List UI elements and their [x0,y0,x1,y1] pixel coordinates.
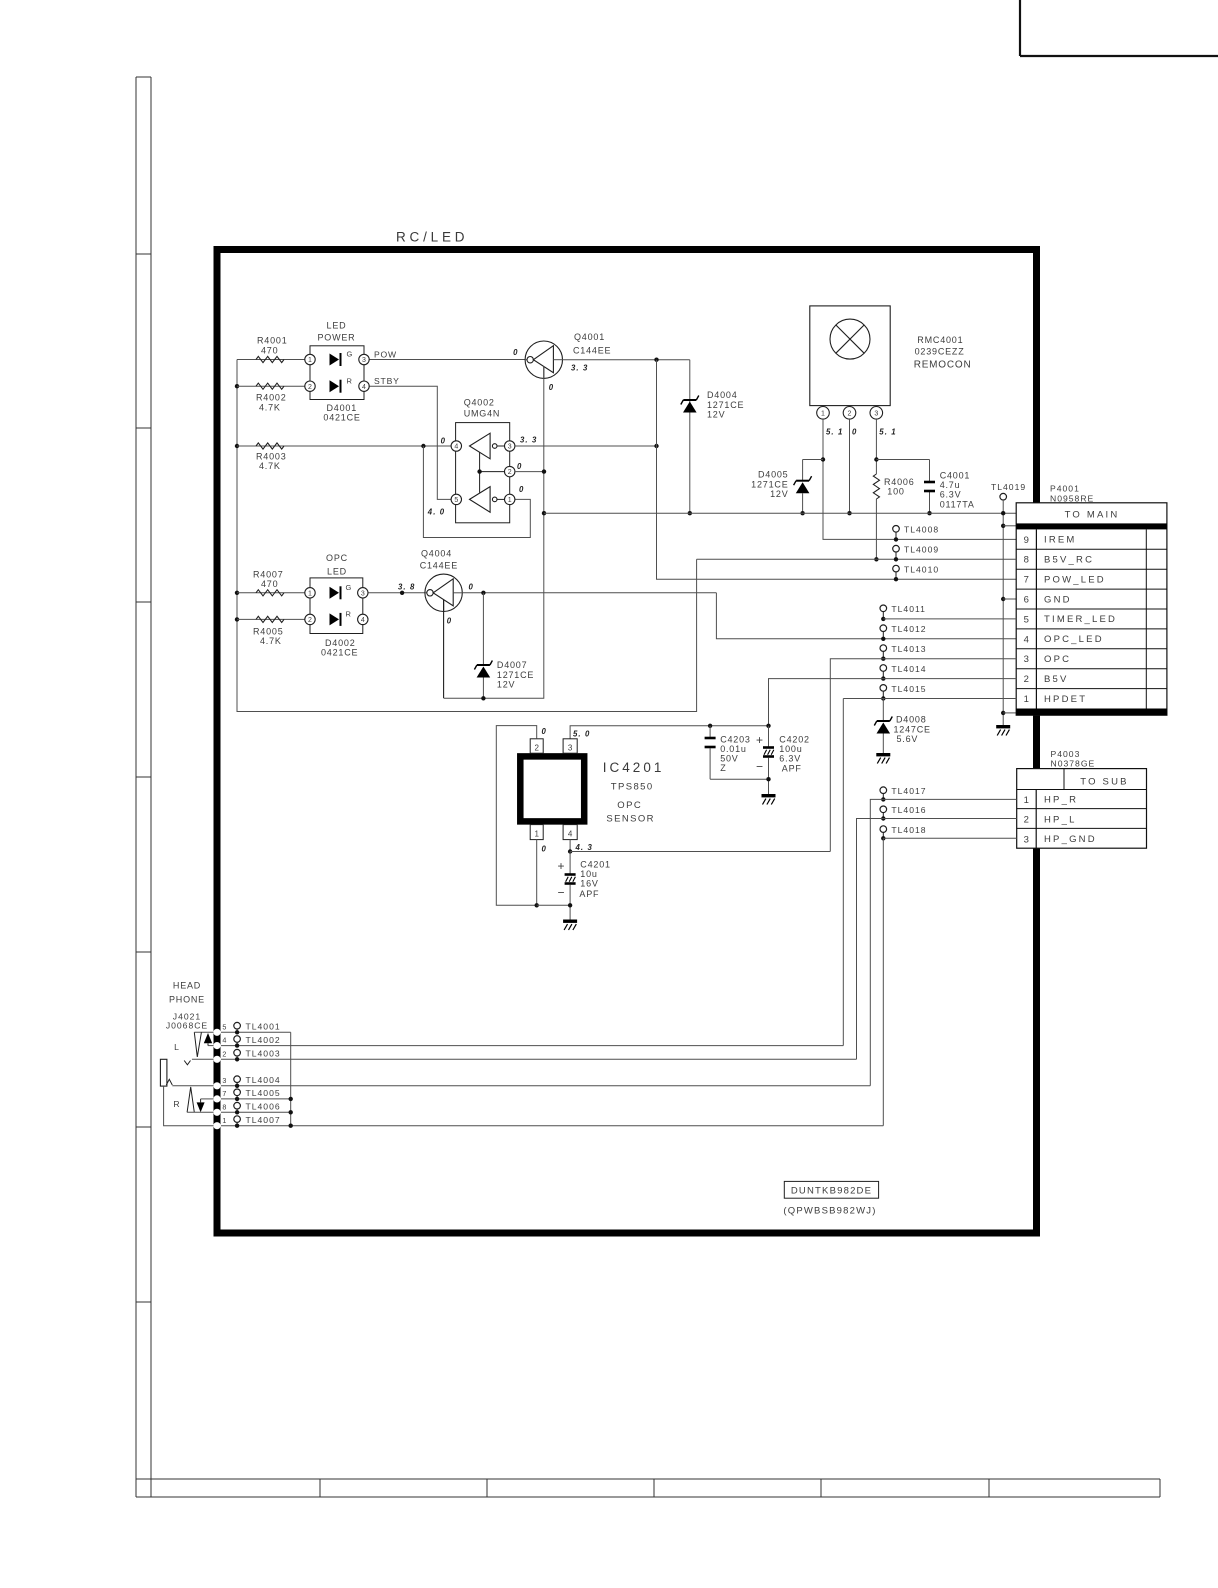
main board thick border [214,246,1041,253]
wire POWLED riser [657,360,1017,580]
svg-text:1271CE: 1271CE [707,400,744,410]
svg-text:R4002: R4002 [256,393,287,403]
wire Q4004 emitter [443,600,445,699]
svg-text:TO MAIN: TO MAIN [1065,510,1120,521]
svg-text:12V: 12V [770,489,788,499]
pin 2 of IC4201 [530,739,543,753]
node emitter-pin2 [542,469,546,473]
wire TIMER_LED row [883,618,1016,620]
ground at D4008 [876,753,890,756]
svg-text:TL4008: TL4008 [904,525,939,535]
svg-text:TL4005: TL4005 [246,1088,281,1098]
svg-text:STBY: STBY [374,376,400,386]
node tl4019-gnd wire [1001,511,1005,515]
svg-text:N0958RE: N0958RE [1050,494,1094,504]
svg-text:D4002: D4002 [325,638,356,648]
wire Q4002 pin3 output [515,445,657,447]
svg-text:5. 1: 5. 1 [826,428,843,437]
svg-text:5: 5 [222,1022,226,1031]
node Q4004-D4007 [481,591,485,595]
svg-text:J0068CE: J0068CE [166,1021,208,1031]
svg-text:N0378GE: N0378GE [1051,759,1096,769]
svg-text:0: 0 [542,845,547,854]
svg-text:TL4009: TL4009 [904,545,939,555]
wire pin3 riser [875,419,877,474]
transistor Q4004 C144EE [425,574,462,611]
wire stub bottom bar [1003,712,1016,714]
pin 4 of D4001 [359,381,369,391]
svg-text:R: R [347,377,353,386]
svg-text:7: 7 [1024,575,1029,586]
svg-text:TL4003: TL4003 [246,1049,281,1059]
svg-text:12V: 12V [707,409,725,419]
svg-text:3. 8: 3. 8 [398,583,415,592]
wire IC pin2 loop [496,726,536,906]
node bus-R4005 [235,617,239,621]
svg-text:4.7K: 4.7K [259,461,281,471]
svg-text:IC4201: IC4201 [603,760,665,775]
diode D4002 dual LED [310,578,363,634]
svg-text:3: 3 [1024,654,1029,665]
svg-text:0: 0 [519,485,524,494]
node D4007-bottom [481,696,485,700]
transistor Q4001 C144EE [525,341,562,378]
svg-text:3. 3: 3. 3 [571,364,588,373]
wire TL4006 row [221,1111,291,1113]
wire stub to table bar [1003,525,1016,527]
svg-text:5: 5 [454,497,458,504]
node bus-R4002 [235,384,239,388]
svg-text:C144EE: C144EE [573,346,611,356]
node D4004-gnd [688,511,692,515]
svg-text:HPDET: HPDET [1044,694,1087,705]
svg-text:0117TA: 0117TA [940,500,975,510]
jack pin pads on border [213,1029,220,1036]
diode D4004 zener [683,399,696,401]
wire pin1-C4201 bottom [537,904,570,906]
testpoint TL4014 [880,665,887,672]
diode D4007 zener [482,593,484,665]
svg-text:3: 3 [508,444,512,451]
svg-text:TL4007: TL4007 [246,1115,281,1125]
svg-text:4: 4 [361,617,365,624]
svg-text:D4004: D4004 [707,390,738,400]
svg-text:50V: 50V [720,754,738,764]
node C4202 bottom [766,777,770,781]
svg-text:G: G [347,350,353,359]
capacitor C4203 [709,726,711,737]
wire Q4002 internal [479,453,481,493]
jack sleeve [160,1059,167,1086]
wire R row [237,618,310,620]
svg-text:3: 3 [1024,834,1029,845]
svg-text:TL4018: TL4018 [891,825,926,835]
svg-text:0: 0 [469,583,474,592]
svg-text:2: 2 [1024,674,1029,685]
node Q4001 collector junction [654,358,658,362]
svg-text:2: 2 [1024,815,1029,826]
svg-text:(QPWBSB982WJ): (QPWBSB982WJ) [783,1206,876,1217]
svg-text:TL4001: TL4001 [246,1022,281,1032]
svg-text:2: 2 [222,1049,226,1058]
wire TL4004 row [221,1085,870,1087]
pin 1 of RMC4001 [817,407,830,420]
testpoint TL4015 [880,685,887,692]
svg-text:RMC4001: RMC4001 [917,335,963,345]
pin 3 of D4001 [359,354,369,364]
testpoint TL4013 [880,645,887,652]
wire B5V row [769,679,1017,726]
wire TL4007 row [221,1125,883,1127]
svg-text:POWER: POWER [317,333,355,343]
svg-text:4. 3: 4. 3 [575,843,593,852]
pin 5 of Q4002 [451,494,461,504]
connector P4003 TO SUB [1017,769,1147,849]
svg-text:5. 1: 5. 1 [879,428,896,437]
wire POW row [237,359,310,361]
svg-text:TL4002: TL4002 [246,1035,281,1045]
node emitter-gnd wire [542,511,546,515]
svg-text:TL4012: TL4012 [891,624,926,634]
svg-text:3. 3: 3. 3 [520,436,537,445]
svg-text:6.3V: 6.3V [779,754,801,764]
testpoint TL4004 [234,1076,241,1083]
ic IC4201 TPS850 OPC sensor [520,756,584,821]
svg-text:1: 1 [1024,795,1029,806]
node OPC out [568,849,572,853]
svg-text:R: R [346,609,352,618]
testpoint TL4005 [234,1089,241,1096]
svg-text:SENSOR: SENSOR [606,814,655,825]
svg-text:C4001: C4001 [940,471,971,481]
svg-text:LED: LED [327,567,347,577]
transistor Q4002 UMG4N [456,423,510,523]
svg-text:2: 2 [848,410,852,417]
wire pin2 to gnd [849,419,851,513]
svg-text:10u: 10u [580,869,597,879]
svg-text:B5V_RC: B5V_RC [1044,554,1094,565]
diode D4005 zener [802,460,804,481]
svg-text:LED: LED [327,321,347,331]
svg-text:R4005: R4005 [253,627,284,637]
pin 1 of D4002 [305,588,315,598]
svg-text:UMG4N: UMG4N [464,409,501,419]
wire GND long [544,512,1016,514]
svg-text:−: − [558,886,565,900]
svg-text:G: G [346,583,352,592]
wire B5V_RC row [697,558,1017,560]
svg-text:OPC: OPC [326,553,348,563]
wire GND riser from Q4001 emitter [444,366,544,698]
svg-text:0239CEZZ: 0239CEZZ [915,347,965,357]
wire HP_GND row [883,837,1016,839]
svg-text:8: 8 [222,1102,226,1111]
svg-text:TPS850: TPS850 [611,782,654,793]
svg-text:GND: GND [1044,594,1072,605]
wire IC pin1 down [536,840,538,906]
receiver RMC4001 REMOCON [810,306,890,406]
svg-text:+: + [558,859,565,873]
node D4005 gnd [800,511,804,515]
pin 3 of IC4201 [563,739,577,753]
svg-text:2: 2 [308,384,312,391]
pin 1 of Q4002 [505,494,515,504]
svg-text:2: 2 [534,744,539,753]
svg-text:4. 0: 4. 0 [427,508,445,517]
wire stub gnd row [1003,598,1016,600]
svg-text:HP_R: HP_R [1044,795,1078,806]
resistor R4007 [256,590,284,596]
svg-text:TO SUB: TO SUB [1080,777,1128,788]
svg-text:6.3V: 6.3V [940,490,962,500]
node R4003-feedback [421,444,425,448]
wire TL4001 row [221,1031,291,1033]
node tl4019-bottom bar [1001,711,1005,715]
svg-text:5. 0: 5. 0 [573,730,590,739]
svg-text:B5V: B5V [1044,674,1069,685]
resistor R4002 [256,383,284,389]
testpoint TL4009 [893,545,900,552]
svg-text:Z: Z [720,763,726,773]
node C4202 top [766,724,770,728]
ground at TL4019 riser [996,725,1010,728]
resistor R4005 [256,616,284,622]
wire OPCLED route [716,593,1016,639]
wire D4004 branch [689,360,691,514]
pin 3 of D4002 [358,588,368,598]
svg-text:Q4001: Q4001 [574,332,605,342]
svg-text:HEAD: HEAD [173,981,201,991]
testpoint TL4016 [880,806,887,813]
svg-text:OPC_LED: OPC_LED [1044,634,1104,645]
svg-text:C144EE: C144EE [420,561,458,571]
svg-text:470: 470 [261,346,278,356]
node 3.8 junction [400,591,404,595]
svg-text:C4201: C4201 [580,860,611,870]
svg-text:R4003: R4003 [256,452,287,462]
diode D4001 dual LED [310,346,364,400]
svg-text:16V: 16V [580,879,598,889]
svg-text:D4008: D4008 [896,715,927,725]
wire STBY row [237,385,310,387]
svg-text:C4203: C4203 [720,735,751,745]
resistor R4003 [256,443,284,449]
node tl4019-bar [1001,524,1005,528]
wire Q4004 collector [462,592,716,594]
svg-text:0: 0 [542,727,547,736]
testpoint TL4003 [234,1049,241,1056]
jack L contact [194,1031,213,1033]
svg-text:APF: APF [579,889,599,899]
svg-text:12V: 12V [497,679,515,689]
wire R4003 row [237,445,451,447]
svg-text:1: 1 [222,1116,226,1125]
node R4006 bottom [874,557,878,561]
resistor R4006 [873,474,879,499]
svg-text:HP_L: HP_L [1044,814,1077,825]
wire Q4002 pin2 stub [515,471,544,473]
testpoint TL4002 [234,1036,241,1043]
svg-text:C4202: C4202 [779,735,810,745]
testpoint TL4017 [880,787,887,794]
ground at C4201 [563,920,577,923]
svg-text:DUNTKB982DE: DUNTKB982DE [791,1186,872,1197]
page frame left ruler column [136,77,151,1497]
jack R contact [166,1079,172,1085]
wire Q4002 feedback loop [423,446,530,538]
svg-text:0: 0 [549,383,554,392]
svg-text:5.6V: 5.6V [897,734,919,744]
svg-text:OPC: OPC [617,800,642,811]
svg-text:4: 4 [1024,634,1029,645]
svg-text:9: 9 [1024,535,1029,546]
svg-text:TL4006: TL4006 [246,1102,281,1112]
svg-text:R4001: R4001 [257,336,288,346]
wire IC pin4 OPC out [569,840,571,852]
testpoint TL4018 [880,826,887,833]
pin 1 of D4001 [305,354,315,364]
svg-text:1: 1 [308,357,312,364]
pin 3 of Q4002 [505,441,515,451]
svg-text:IREM: IREM [1044,535,1077,546]
svg-text:0: 0 [852,428,857,437]
inverter A of Q4002 [470,433,491,459]
svg-text:3: 3 [361,590,365,597]
testpoint TL4012 [880,625,887,632]
svg-text:Q4004: Q4004 [421,549,452,559]
svg-text:1: 1 [1024,694,1029,705]
wire sleeve to pin1 [164,1086,214,1126]
wire TL4003 row [221,1058,857,1060]
svg-text:+: + [756,733,763,747]
testpoint TL4010 [893,565,900,572]
node jcom-8 [289,1110,293,1114]
svg-text:TL4015: TL4015 [891,684,926,694]
pin 4 of Q4002 [451,441,461,451]
inverter B of Q4002 [470,487,491,513]
svg-text:2: 2 [508,469,512,476]
resistor R4001 [256,356,284,362]
node tl4019-gnd row [1001,597,1005,601]
svg-text:1247CE: 1247CE [894,724,931,734]
svg-text:8: 8 [1024,555,1029,566]
svg-text:OPC: OPC [1044,654,1071,665]
svg-text:D4007: D4007 [497,660,528,670]
wire TL4019 riser [1002,500,1004,725]
bottom ruler band [136,1479,1160,1497]
pin 3 of RMC4001 [870,407,883,420]
node C4203 top [708,724,712,728]
node bus-R4007 [235,591,239,595]
pin 2 of RMC4001 [843,407,856,420]
testpoint TL4001 [234,1022,241,1029]
svg-text:0: 0 [513,348,518,357]
node C4001 gnd [927,511,931,515]
wire IREM from pin1 [823,419,1016,539]
svg-text:REMOCON: REMOCON [914,360,972,371]
wire HP_GND riser [882,838,884,1125]
pin 4 of D4002 [358,614,368,624]
svg-text:TL4011: TL4011 [891,604,926,614]
testpoint TL4011 [880,605,887,612]
svg-text:POW_LED: POW_LED [1044,574,1106,585]
svg-text:1271CE: 1271CE [497,670,534,680]
diode D4008 zener [882,699,884,722]
node D4005 top [821,457,825,461]
svg-text:TL4019: TL4019 [991,482,1026,492]
svg-text:2: 2 [308,617,312,624]
node pin1 gnd [535,903,539,907]
svg-text:PHONE: PHONE [169,995,205,1005]
wire jack common vertical [290,1032,292,1125]
svg-text:P4003: P4003 [1051,749,1081,759]
svg-text:4: 4 [568,830,573,839]
svg-text:0.01u: 0.01u [720,744,747,754]
svg-text:100: 100 [887,487,904,497]
node C4201 bottom [568,903,572,907]
svg-text:D4001: D4001 [327,403,358,413]
node jcom-1 [289,1124,293,1128]
svg-text:4.7u: 4.7u [940,480,961,490]
svg-text:3: 3 [222,1076,226,1085]
svg-text:0421CE: 0421CE [323,413,360,423]
svg-text:RC/LED: RC/LED [396,230,468,245]
svg-text:4.7K: 4.7K [259,403,281,413]
svg-text:TL4017: TL4017 [891,786,926,796]
node jcom-7 [289,1097,293,1101]
wire OPC row to table [830,659,1016,852]
svg-text:4.7K: 4.7K [260,636,282,646]
svg-text:4: 4 [362,384,366,391]
wire HPDET riser [842,699,844,1046]
svg-text:TL4014: TL4014 [891,664,926,674]
pin 2 of D4001 [305,381,315,391]
ground at C4202 [762,794,776,797]
svg-text:APF: APF [782,764,802,774]
pin 2 of Q4002 [505,466,515,476]
svg-text:R4007: R4007 [253,570,284,580]
jack L tip mark [184,1061,190,1065]
wire C4001 branch [876,459,929,461]
svg-text:D4005: D4005 [758,470,789,480]
testpoint TL4008 [893,526,900,533]
svg-text:Q4002: Q4002 [464,398,495,408]
svg-text:1271CE: 1271CE [751,479,788,489]
svg-text:1: 1 [508,497,512,504]
svg-text:4: 4 [454,444,458,451]
svg-text:P4001: P4001 [1050,484,1080,494]
svg-text:R4006: R4006 [884,477,915,487]
node pin3-C4001 [874,457,878,461]
svg-text:0: 0 [441,437,446,446]
wire HP_R row [870,799,1016,1085]
wire 5V node from IC pin3 [570,726,768,739]
wire OPC row [237,592,310,594]
testpoint TL4006 [234,1102,241,1109]
capacitor C4001 [924,481,935,484]
svg-text:TL4016: TL4016 [891,805,926,815]
node pin3-POWLED riser [654,444,658,448]
pin 2 of D4002 [305,614,315,624]
svg-text:−: − [756,760,763,774]
svg-text:TL4004: TL4004 [246,1075,281,1085]
wire TL4002 row [221,1045,843,1047]
svg-text:1: 1 [308,590,312,597]
wire HPDET row [843,698,1016,700]
svg-text:HP_GND: HP_GND [1044,834,1097,845]
svg-text:100u: 100u [779,744,802,754]
node Q4002 internal [477,469,481,473]
